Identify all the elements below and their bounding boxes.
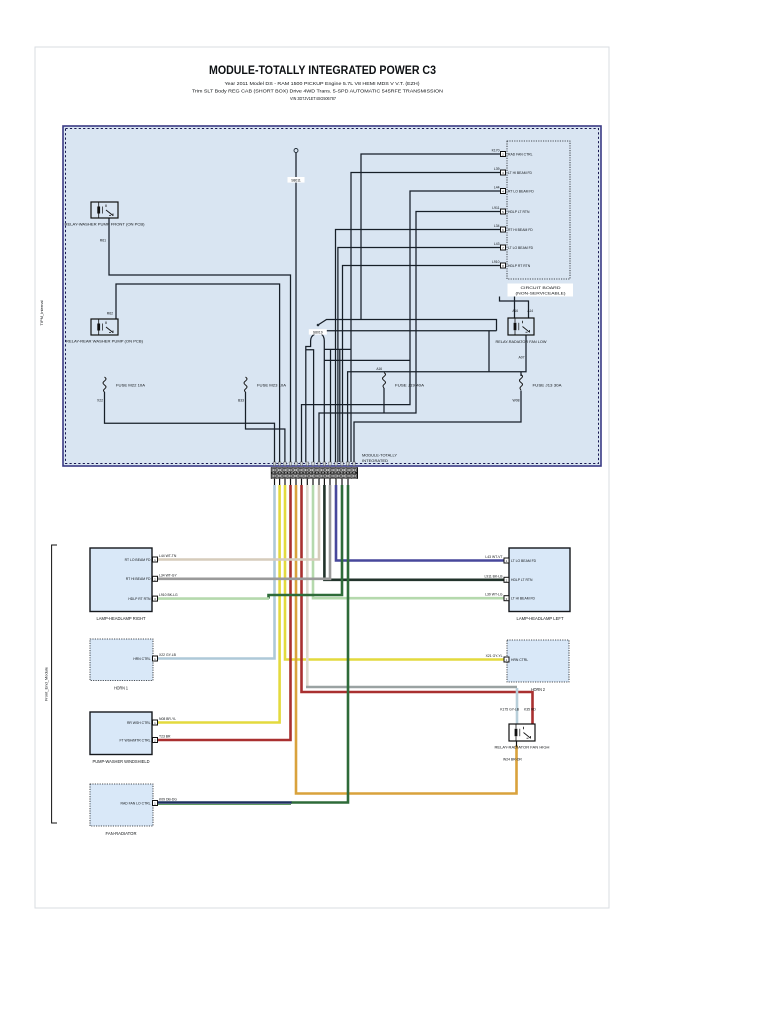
splice S8019 node (317, 324, 320, 327)
svg-text:MODULE-TOTALLY INTEGRATED POWE: MODULE-TOTALLY INTEGRATED POWER C3 (209, 63, 436, 77)
wire S8019 right arc branch (322, 334, 325, 462)
svg-text:MODULE-TOTALLY: MODULE-TOTALLY (362, 454, 397, 458)
svg-text:A16: A16 (376, 367, 382, 371)
svg-text:RT LO BEAM FD: RT LO BEAM FD (125, 558, 151, 562)
svg-text:L43 WT-VT: L43 WT-VT (485, 555, 502, 559)
svg-text:LT LO BEAM FD: LT LO BEAM FD (508, 246, 534, 250)
wire circuit board pin L34 RT HI BEAM FD (336, 230, 501, 463)
lamp right pin 1 (125, 554, 177, 562)
lamp headlamp right box (90, 548, 152, 612)
lamp right pin 2 (126, 573, 178, 581)
fan radiator box (90, 784, 153, 826)
svg-text:T23 BR: T23 BR (159, 735, 171, 739)
svg-text:K175 GY-LB: K175 GY-LB (500, 708, 519, 712)
svg-text:K35 RD: K35 RD (524, 708, 536, 712)
svg-text:(NON-SERVICEABLE): (NON-SERVICEABLE) (516, 291, 567, 296)
svg-text:HDLP LT RTN: HDLP LT RTN (508, 210, 530, 214)
svg-text:VIN 3D7JV1ET4SG506787: VIN 3D7JV1ET4SG506787 (290, 96, 337, 101)
circuit board dashed box (507, 141, 570, 279)
wire circuit board to relay fan low coil (514, 297, 516, 319)
lamp left pin 1 (485, 555, 536, 563)
svg-text:K09 DB-DG: K09 DB-DG (159, 798, 177, 802)
wire relay R61 to connector (109, 218, 291, 462)
lamp left pin 2 (484, 574, 533, 582)
svg-text:RT HI BEAM FD: RT HI BEAM FD (126, 577, 151, 581)
wire K175 light blue drop to relay (516, 688, 519, 724)
wire relay fan low A16 output (348, 335, 526, 462)
front end module bracket (52, 545, 57, 823)
pump pin 2 (119, 735, 171, 743)
connector body TIPM C3 (271, 467, 358, 479)
svg-text:X22 GY-LB: X22 GY-LB (159, 653, 177, 657)
svg-text:L34 WT-GY: L34 WT-GY (159, 573, 177, 577)
splice S8019 label (309, 329, 327, 334)
wire K175 gray horizontal (306, 686, 517, 689)
wire N08 BR-YL pump rear wash (158, 485, 280, 723)
wire S8019 branch tee (306, 350, 314, 462)
fan radiator pin (121, 798, 178, 806)
horn 2 box (507, 640, 569, 682)
wire splice S8019 top run (318, 320, 497, 331)
wire fuse J13 top and bottom (354, 372, 521, 462)
svg-text:RT LO BEAM FD: RT LO BEAM FD (508, 190, 534, 194)
svg-text:A07: A07 (518, 356, 524, 360)
svg-text:R62: R62 (107, 312, 113, 316)
svg-text:INTEGRATED: INTEGRATED (362, 459, 388, 463)
wire L910 BK-LG light green segment (158, 597, 270, 600)
horn 2 pin (486, 654, 529, 662)
svg-text:LAMP-HEADLAMP LEFT: LAMP-HEADLAMP LEFT (517, 616, 564, 621)
splice S8011 label (288, 177, 305, 183)
wire fuse J19 bottom (383, 388, 385, 413)
horn 1 pin (133, 653, 176, 661)
splice S8011 terminal circle (294, 149, 298, 153)
wire X22 GY-LB horn1 (158, 485, 275, 659)
svg-text:N08 BR-YL: N08 BR-YL (159, 717, 176, 721)
wire T23 BR pump front wash (158, 485, 291, 740)
wire K09 DB navy segment (158, 801, 292, 804)
circuit board pin 5 HDLP LT RTN (492, 206, 530, 214)
svg-text:HDLP RT RTN: HDLP RT RTN (508, 264, 531, 268)
svg-text:FUSE J19 40A: FUSE J19 40A (395, 384, 425, 388)
svg-text:RR WSH CTRL: RR WSH CTRL (127, 721, 151, 725)
svg-text:HORN 1: HORN 1 (114, 686, 129, 691)
horn 1 box (90, 639, 153, 681)
svg-text:R61: R61 (100, 239, 106, 243)
wire jog to gray feed (324, 349, 351, 462)
relay radiator fan low (508, 318, 534, 335)
wire circuit board pin L44 RT LO BEAM FD (302, 191, 501, 462)
circuit board label (508, 284, 574, 297)
wire fuse M22 to connector (105, 392, 275, 462)
wire W24 BR-OR fan high relay output (296, 485, 517, 794)
svg-text:FAN-RADIATOR: FAN-RADIATOR (106, 831, 137, 836)
wire L39 WT-LG lamp left high beam (313, 485, 505, 598)
connector lower stubs (275, 478, 349, 486)
svg-text:RAD FAN LO CTRL: RAD FAN LO CTRL (121, 801, 151, 805)
fuse M22 (103, 377, 106, 392)
svg-text:L43: L43 (494, 242, 500, 246)
svg-text:RELAY-RADIATOR FAN HIGH: RELAY-RADIATOR FAN HIGH (495, 746, 550, 750)
svg-text:HORN 2: HORN 2 (531, 687, 546, 692)
fuse J13 (520, 375, 523, 391)
svg-text:FT WSH/MTR CTRL: FT WSH/MTR CTRL (119, 738, 150, 742)
svg-text:TIPM_Internal: TIPM_Internal (39, 300, 44, 325)
wire relay high bottom stub (516, 741, 518, 747)
circuit board pin 7 LT LO BEAM FD (494, 242, 534, 250)
svg-text:K170: K170 (492, 149, 500, 153)
svg-text:LT LO BEAM FD: LT LO BEAM FD (511, 559, 537, 563)
lamp left pin 3 (485, 593, 535, 601)
svg-text:A14: A14 (527, 309, 533, 313)
lamp right pin 3 (128, 593, 178, 601)
svg-text:B33: B33 (238, 399, 244, 403)
svg-text:X21 GY-YL: X21 GY-YL (486, 654, 503, 658)
svg-text:L44 WT-TN: L44 WT-TN (159, 554, 177, 558)
svg-text:FUSE M22 10A: FUSE M22 10A (116, 384, 146, 388)
svg-text:L39 WT-LG: L39 WT-LG (485, 593, 503, 597)
svg-text:HRN CTRL: HRN CTRL (133, 657, 150, 661)
svg-text:Year 2011 Model DS - RAM 1500: Year 2011 Model DS - RAM 1500 PICKUP Eng… (225, 81, 420, 87)
svg-text:CIRCUIT BOARD: CIRCUIT BOARD (521, 285, 561, 290)
wire splice S8011 vertical (295, 153, 297, 463)
wire circuit board pin L911 HDLP LT RTN (319, 212, 501, 463)
wire K09 fan radiator dark green segment (291, 485, 348, 803)
svg-text:X22: X22 (97, 399, 103, 403)
wire L911 lamp left return (324, 485, 504, 580)
pump washer windshield box (90, 712, 152, 755)
svg-text:Trim SLT Body REG CAB (SHORT B: Trim SLT Body REG CAB (SHORT BOX) Drive … (192, 89, 443, 95)
relay R62 rear washer pump (91, 319, 118, 335)
svg-text:Front_End_Module: Front_End_Module (44, 666, 49, 701)
wire circuit board pin L910 HDLP RT RTN (343, 266, 501, 463)
circuit board pin 8 HDLP RT RTN (492, 260, 531, 268)
svg-text:W24 BR-OR: W24 BR-OR (503, 758, 522, 762)
wire L44 WT-TN lamp right low beam (158, 485, 320, 560)
svg-text:FUSE J13 30A: FUSE J13 30A (533, 384, 563, 388)
TIPM module box (63, 126, 601, 466)
svg-text:HDLP LT RTN: HDLP LT RTN (511, 578, 533, 582)
relay R61 washer pump front (91, 202, 118, 218)
circuit board pin 3 LT HI BEAM FD (494, 167, 533, 175)
wire L34 WT-GY lamp right high beam (158, 485, 331, 579)
svg-text:LT HI BEAM FD: LT HI BEAM FD (508, 171, 533, 175)
circuit board pin 6 RT HI BEAM FD (494, 224, 533, 232)
svg-text:L39: L39 (494, 167, 500, 171)
wire S8019 left arc branch (306, 334, 315, 462)
svg-text:L34: L34 (494, 224, 500, 228)
svg-text:L911 BK-LB: L911 BK-LB (484, 574, 503, 578)
wire circuit board pin L39 LT HI BEAM FD (351, 173, 501, 463)
wire circuit board pin K170 RAD FAN CTRL (361, 154, 501, 320)
svg-text:L44: L44 (494, 186, 500, 190)
fuse J19 (383, 373, 386, 389)
lamp headlamp left box (509, 548, 570, 612)
TIPM inner dashed border (66, 129, 599, 464)
svg-text:RELAY-WASHER PUMP FRONT (ON PC: RELAY-WASHER PUMP FRONT (ON PCB) (65, 222, 145, 226)
svg-text:W08: W08 (513, 399, 520, 403)
svg-text:L910: L910 (492, 260, 500, 264)
svg-text:S8011: S8011 (291, 179, 301, 183)
svg-text:LT HI BEAM FD: LT HI BEAM FD (511, 597, 536, 601)
pump pin 1 (127, 717, 176, 725)
wire relay R62 to connector (116, 284, 280, 462)
fuse M23 (244, 377, 247, 392)
svg-text:A16: A16 (512, 309, 518, 313)
svg-text:RELAY-REAR WASHER PUMP (ON PCB: RELAY-REAR WASHER PUMP (ON PCB) (66, 339, 143, 343)
circuit board pin 4 RT LO BEAM FD (494, 186, 535, 194)
svg-text:L911: L911 (492, 206, 499, 210)
wire circuit board to relay fan low switch (500, 297, 529, 319)
svg-text:RAD FAN CTRL: RAD FAN CTRL (508, 153, 533, 157)
connector pin tips above (273, 462, 356, 466)
svg-text:FUSE M23 10A: FUSE M23 10A (257, 384, 287, 388)
wire fuse M23 to connector (246, 392, 285, 462)
wire L43 WT-VT lamp left low beam (336, 485, 505, 561)
svg-text:L910 BK-LG: L910 BK-LG (159, 593, 178, 597)
wire L910 BK-LG dark green segment (269, 485, 343, 599)
relay radiator fan high (509, 724, 535, 741)
wire K09 green tracer (158, 803, 292, 805)
wire circuit board pin L43 LT LO BEAM FD (338, 248, 501, 463)
wire K175 coil feed vertical (306, 485, 309, 687)
svg-text:HDLP RT RTN: HDLP RT RTN (128, 597, 151, 601)
wire splice S8019 right run to fan low relay (327, 331, 497, 372)
wire X21 GY-YL horn2 (285, 485, 504, 660)
svg-text:PUMP-WASHER WINDSHIELD: PUMP-WASHER WINDSHIELD (93, 759, 150, 764)
circuit board pin 2 RAD FAN CTRL (492, 149, 533, 157)
svg-text:HRN CTRL: HRN CTRL (511, 658, 528, 662)
wire fuse J19 feed (324, 359, 410, 361)
svg-text:LAMP-HEADLAMP RIGHT: LAMP-HEADLAMP RIGHT (97, 616, 146, 621)
wire K35 fan high relay switch feed (302, 485, 533, 724)
svg-text:RELAY-RADIATOR FAN LOW: RELAY-RADIATOR FAN LOW (496, 340, 547, 344)
svg-text:RT HI BEAM FD: RT HI BEAM FD (508, 228, 533, 232)
svg-text:S8019: S8019 (313, 331, 323, 335)
